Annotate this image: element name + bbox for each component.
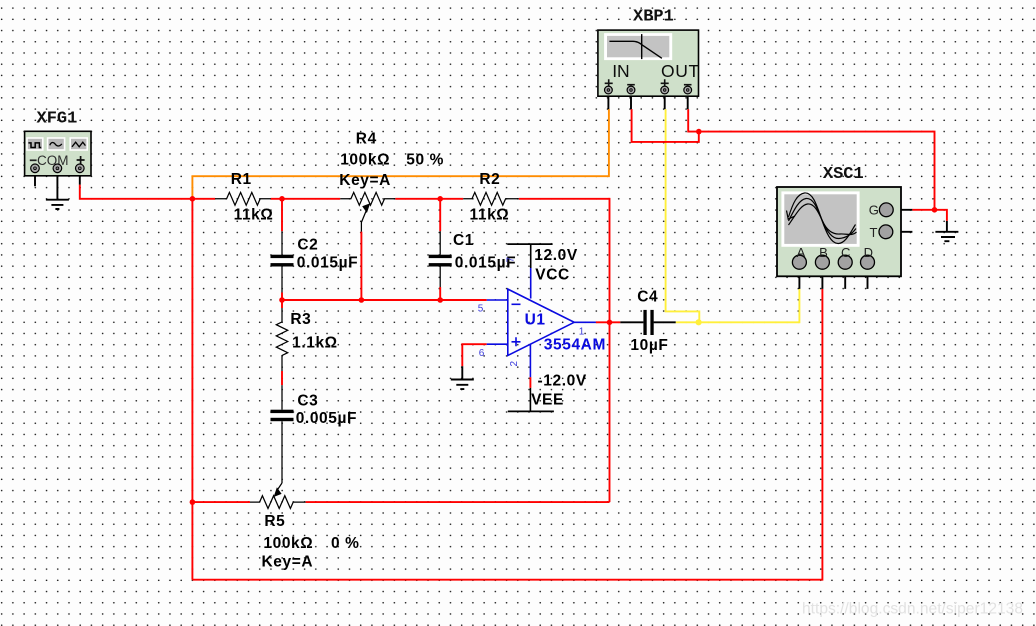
wire red lower mid line to pin5	[282, 299, 487, 301]
wire black scope G lead	[893, 209, 912, 211]
svg-text:5: 5	[478, 303, 484, 314]
wire red XBP1 IN-	[632, 109, 699, 142]
wire red left vertical	[191, 198, 193, 580]
svg-text:1.1kΩ: 1.1kΩ	[292, 335, 338, 352]
label U1	[525, 311, 606, 353]
svg-text:https://blog.csdn.net/siper121: https://blog.csdn.net/siper12138	[802, 601, 1023, 618]
svg-text:C3: C3	[297, 392, 318, 409]
wire red top right to scope ground	[699, 132, 947, 221]
label R1	[231, 171, 274, 223]
svg-text:10µF: 10µF	[630, 337, 668, 354]
wire red pin2 stub	[529, 377, 531, 388]
svg-text:XBP1: XBP1	[633, 7, 674, 26]
op-amp U1	[487, 268, 596, 377]
svg-text:11kΩ: 11kΩ	[234, 207, 274, 224]
wire red XBP1 OUT-	[688, 109, 699, 132]
svg-text:D: D	[864, 245, 873, 260]
svg-text:2: 2	[509, 361, 520, 367]
svg-text:7: 7	[506, 257, 517, 263]
svg-text:100kΩ: 100kΩ	[263, 535, 313, 552]
resistor R2	[463, 192, 519, 205]
wire black scope pin stubs	[799, 269, 867, 289]
svg-text:VCC: VCC	[535, 266, 570, 283]
ground XFG1 COM	[46, 200, 69, 209]
VEE rail bar	[508, 410, 554, 412]
wire yellow C4 to scope A	[676, 289, 800, 322]
resistor R3	[276, 308, 287, 371]
label R2	[470, 171, 510, 223]
wire red R5 row	[192, 501, 609, 503]
wire red bottom loop to scope B	[192, 289, 822, 580]
capacitor C1	[429, 231, 452, 287]
function generator XFG1	[25, 109, 91, 176]
label C1	[453, 232, 516, 271]
label C4	[630, 288, 668, 353]
wire yellow XBP1 OUT+	[666, 109, 700, 322]
svg-text:OUT: OUT	[661, 61, 700, 81]
wire red main top line R1 segment	[192, 198, 609, 200]
VCC rail bar	[507, 244, 552, 268]
label R5	[262, 513, 360, 570]
svg-text:C2: C2	[297, 237, 318, 254]
bode plotter XBP1	[598, 7, 700, 96]
svg-text:C1: C1	[453, 232, 474, 249]
svg-text:R4: R4	[356, 130, 377, 147]
op-amp pin2 black lead	[529, 388, 531, 412]
svg-text:50 %: 50 %	[406, 152, 444, 169]
svg-text:R3: R3	[290, 311, 311, 328]
wire black scope ground stem	[946, 221, 948, 232]
wire black XFG1 pin stubs	[35, 172, 80, 199]
label R3	[290, 311, 337, 351]
svg-text:0.005µF: 0.005µF	[296, 410, 357, 427]
svg-text:11kΩ: 11kΩ	[470, 207, 510, 224]
svg-text:12.0V: 12.0V	[534, 247, 578, 264]
capacitor C2	[271, 231, 294, 292]
svg-text:XSC1: XSC1	[823, 165, 864, 184]
svg-text:A: A	[797, 245, 806, 260]
wire red output to C4	[596, 321, 621, 323]
svg-text:-12.0V: -12.0V	[538, 373, 587, 390]
svg-text:R1: R1	[231, 171, 252, 188]
wire black XBP1 pin stubs	[608, 94, 687, 110]
label VEE	[531, 373, 587, 409]
junction dot yellow	[696, 319, 702, 325]
wire red scope G to junction	[912, 209, 934, 211]
wire red R3 C3 stub	[281, 300, 283, 385]
wire orange XBP1 IN+ to main node	[192, 109, 609, 198]
svg-text:C4: C4	[637, 288, 658, 305]
label R4	[339, 130, 444, 188]
wire red XFG1 plus to main node	[80, 185, 193, 199]
svg-text:R2: R2	[479, 171, 500, 188]
svg-text:0.015µF: 0.015µF	[297, 255, 358, 272]
label C2	[297, 237, 358, 272]
svg-text:G: G	[869, 203, 879, 218]
svg-text:XFG1: XFG1	[37, 109, 78, 128]
svg-text:R5: R5	[264, 513, 285, 530]
label VCC	[534, 247, 578, 284]
resistor R1	[215, 192, 271, 205]
wire red R4 wiper drop	[360, 232, 362, 300]
pin numbers	[478, 257, 585, 367]
svg-text:Key=A: Key=A	[339, 172, 391, 189]
svg-text:T: T	[870, 225, 878, 240]
svg-text:COM: COM	[37, 153, 69, 168]
oscilloscope XSC1	[777, 165, 901, 276]
potentiometer R4	[340, 192, 395, 231]
wire red C1 stubs	[439, 199, 441, 300]
svg-text:0 %: 0 %	[331, 535, 360, 552]
capacitor C4	[643, 310, 653, 335]
capacitor C3	[271, 385, 294, 483]
wire red C2 stubs	[281, 199, 283, 300]
wire black scope T stub	[893, 231, 913, 233]
svg-text:VEE: VEE	[531, 392, 564, 409]
svg-text:6: 6	[479, 348, 485, 359]
ground scope	[935, 232, 958, 241]
svg-text:B: B	[819, 245, 828, 260]
svg-text:Key=A: Key=A	[262, 553, 314, 570]
potentiometer R5	[250, 483, 306, 509]
wire black C4 leads	[620, 321, 676, 323]
svg-text:C: C	[841, 245, 850, 260]
ground op-amp pin6	[451, 366, 474, 389]
wire red right vertical feedback	[609, 198, 611, 502]
label C3	[296, 392, 357, 427]
svg-text:IN: IN	[612, 61, 630, 81]
junction dots red	[190, 129, 938, 505]
svg-text:100kΩ: 100kΩ	[340, 152, 390, 169]
svg-text:3554AM: 3554AM	[544, 337, 606, 354]
svg-text:1: 1	[579, 327, 585, 338]
wire red pin6 to ground	[462, 344, 486, 366]
svg-text:U1: U1	[525, 311, 546, 328]
